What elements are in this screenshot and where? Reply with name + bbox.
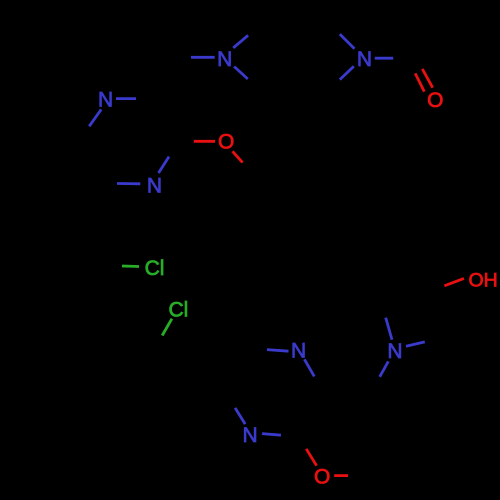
svg-text:Cl: Cl [145, 257, 165, 280]
svg-text:N: N [242, 424, 257, 447]
svg-text:N: N [387, 340, 402, 363]
svg-text:N: N [291, 339, 306, 362]
svg-text:N: N [217, 48, 232, 71]
svg-text:O: O [314, 466, 330, 489]
svg-text:N: N [147, 175, 162, 198]
svg-text:Cl: Cl [168, 299, 188, 322]
svg-text:O: O [427, 89, 443, 112]
svg-text:N: N [357, 48, 372, 71]
svg-text:N: N [98, 89, 113, 112]
svg-text:O: O [218, 130, 234, 153]
svg-text:OH: OH [468, 269, 497, 291]
